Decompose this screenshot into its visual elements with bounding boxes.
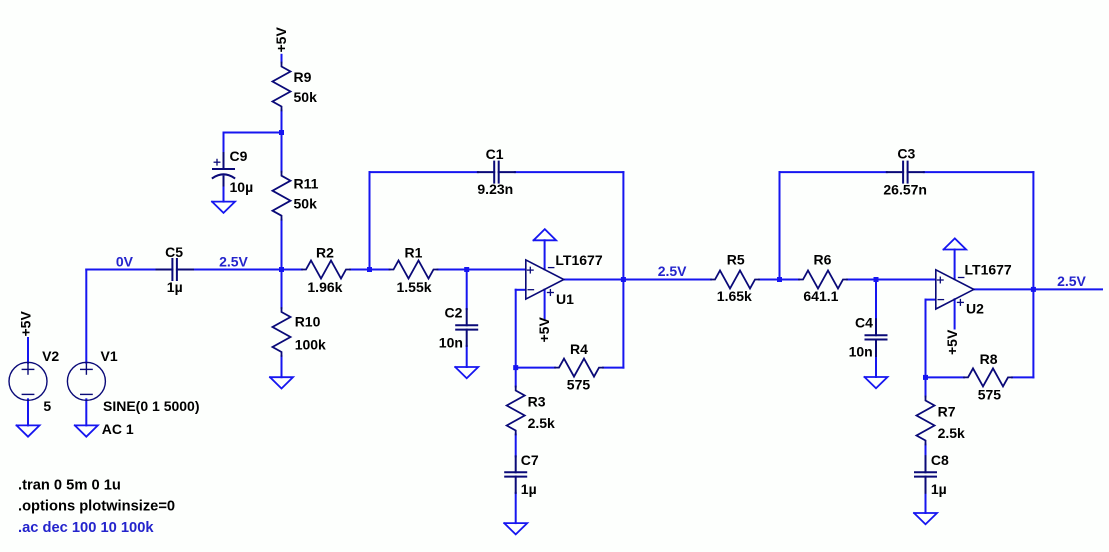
wire R7 to C8 [925,445,927,457]
wire U2 minus to R7 [925,300,927,397]
wire V1 top vertical [85,270,87,363]
wire C2 to ground [466,346,468,367]
svg-text:C4: C4 [855,314,873,330]
node R2 R1 C1 junction [367,267,372,272]
capacitor C3 [887,162,924,183]
wire R8 left [926,376,965,378]
resistor R1 [390,261,438,279]
node U2 feedback junction [923,375,928,380]
wire V2 top lead [27,338,29,363]
svg-text:2.5k: 2.5k [938,425,965,441]
resistor R9 [273,63,291,111]
svg-text:.options plotwinsize=0: .options plotwinsize=0 [18,499,175,515]
wire U2 top power pin [954,250,956,280]
wire C7 to ground [515,493,517,523]
wire U1 minus to R3 [515,290,517,387]
wire U2 bottom power pin [954,299,956,328]
resistor R2 [302,261,350,279]
wire R2 to R1 [350,269,390,271]
node R5 R6 C3 junction [777,277,782,282]
svg-text:R9: R9 [294,69,312,85]
svg-text:.ac dec 100 10 100k: .ac dec 100 10 100k [18,520,154,536]
wire C1 right horizontal [515,171,624,173]
svg-text:2.5V: 2.5V [1057,273,1086,289]
wire U2 feedback vertical [1032,172,1034,377]
node U2 output junction [1031,287,1036,292]
power flag above U2 [944,238,967,249]
svg-text:26.57n: 26.57n [883,182,927,198]
wire C3 riser [779,172,781,279]
ground below C9 [212,202,235,213]
power flag above U1 [534,229,557,240]
resistor R6 [799,271,847,289]
svg-text:V1: V1 [101,348,118,364]
svg-text:0V: 0V [116,254,134,270]
svg-text:5: 5 [43,398,51,414]
svg-text:LT1677: LT1677 [555,252,602,268]
wire C1 riser [369,172,371,269]
svg-text:100k: 100k [295,336,326,352]
wire C4 hang [875,280,877,320]
wire R9 to R11 [281,111,283,172]
capacitor C1 [478,162,515,183]
svg-text:1µ: 1µ [521,481,537,497]
svg-text:C1: C1 [486,146,504,162]
capacitor C2 [456,309,477,346]
wire U1 output to R5 [623,279,711,281]
ground below V1 [75,425,98,436]
wire R3 to C7 [515,435,517,457]
wire R5 to R6 [759,279,799,281]
svg-text:C3: C3 [897,145,915,161]
svg-text:641.1: 641.1 [803,288,838,304]
svg-text:R5: R5 [727,252,745,268]
wire R4 left [516,367,555,369]
wire R4 right [603,367,623,369]
svg-text:C8: C8 [931,452,949,468]
resistor R4 [555,359,603,377]
wire U2 minus input horizontal [926,299,936,301]
svg-text:LT1677: LT1677 [965,261,1012,277]
svg-text:1.96k: 1.96k [307,279,342,295]
svg-text:U2: U2 [966,301,984,317]
svg-text:R6: R6 [814,252,832,268]
svg-text:.tran 0 5m 0 1u: .tran 0 5m 0 1u [18,478,121,494]
wire R10 to ground [281,356,283,377]
wire U2 output [974,288,1102,290]
svg-text:+5V: +5V [273,27,289,53]
ground below C8 [914,513,937,524]
ground below C4 [865,377,888,388]
wire C9 to ground [223,186,225,202]
svg-text:C5: C5 [165,244,183,260]
wire +5V flag to R9 [281,55,283,63]
svg-text:SINE(0 1 5000): SINE(0 1 5000) [103,398,200,414]
svg-text:+5V: +5V [536,317,552,343]
svg-text:R8: R8 [980,351,998,367]
svg-text:V2: V2 [42,348,59,364]
svg-text:R4: R4 [570,341,588,357]
node R6 C4 junction [874,277,879,282]
wire R6 to U2 plus input [847,279,935,281]
wire C3 right horizontal [924,171,1034,173]
svg-text:+5V: +5V [944,329,960,355]
node U1 feedback junction [513,365,518,370]
wire U1 output [564,279,623,281]
resistor R10 [273,308,291,356]
svg-text:R1: R1 [405,244,423,260]
wire U1 minus input horizontal [516,289,526,291]
node U1 output junction [621,277,626,282]
node R9 R11 C9 junction [279,130,284,135]
svg-text:2.5V: 2.5V [658,263,687,279]
wire C1 left horizontal [370,171,478,173]
resistor R11 [273,172,291,220]
svg-text:R11: R11 [294,175,319,191]
capacitor C8 [915,456,936,493]
wire C4 to ground [875,356,877,377]
resistor R7 [917,397,935,445]
resistor R8 [964,368,1012,386]
ground below C2 [455,367,478,378]
capacitor C9 polarized [213,153,235,186]
capacitor C5 [157,259,194,280]
svg-text:1µ: 1µ [931,481,947,497]
wire V2 bottom lead [27,399,29,425]
svg-text:2.5k: 2.5k [528,415,555,431]
svg-text:R10: R10 [295,314,321,330]
resistor R3 [507,387,525,435]
ground below C7 [504,523,527,534]
wire C9 top vertical [223,133,225,154]
svg-text:1.65k: 1.65k [717,288,752,304]
wire C5 to R2 [193,269,302,271]
wire C3 left horizontal [780,171,887,173]
svg-text:10n: 10n [849,343,873,359]
wire rail to R10 [281,270,283,309]
capacitor C4 [866,319,887,356]
ground below V2 [17,425,40,436]
svg-text:R3: R3 [528,393,546,409]
svg-text:1.55k: 1.55k [397,279,432,295]
wire C2 hang [466,270,468,310]
svg-text:9.23n: 9.23n [477,181,513,197]
wire U1 feedback vertical [622,172,624,368]
wire node to C9 horizontal [224,132,282,134]
svg-text:10µ: 10µ [230,179,254,195]
svg-text:C9: C9 [230,148,248,164]
svg-text:U1: U1 [556,291,574,307]
op-amp U2 [936,270,974,309]
svg-text:R2: R2 [316,244,334,260]
svg-text:C2: C2 [445,304,463,320]
resistor R5 [711,271,759,289]
node main rail junction [279,267,284,272]
wire U1 top power pin [544,240,546,269]
wire R11 to rail [281,220,283,270]
svg-text:575: 575 [567,377,591,393]
svg-text:+5V: +5V [18,311,34,337]
svg-text:AC 1: AC 1 [102,421,134,437]
svg-text:R7: R7 [938,403,956,419]
svg-text:C7: C7 [521,452,539,468]
wire R1 to U1 plus input [438,269,526,271]
op-amp U1 [526,260,564,299]
svg-text:10n: 10n [439,335,463,351]
wire V1 to C5 [86,269,156,271]
svg-text:50k: 50k [294,195,318,211]
wire V1 bottom lead [85,399,87,425]
node R1 C2 junction [464,267,469,272]
svg-text:1µ: 1µ [167,279,183,295]
svg-text:50k: 50k [294,89,318,105]
wire R8 right [1012,376,1033,378]
voltage source V2 [9,362,47,400]
ground below R10 [270,377,293,388]
wire C8 to ground [925,493,927,513]
voltage source V1 [67,362,105,400]
capacitor C7 [505,456,526,493]
svg-text:575: 575 [978,386,1002,402]
svg-text:2.5V: 2.5V [219,254,248,270]
wire U1 bottom power pin [544,290,546,319]
